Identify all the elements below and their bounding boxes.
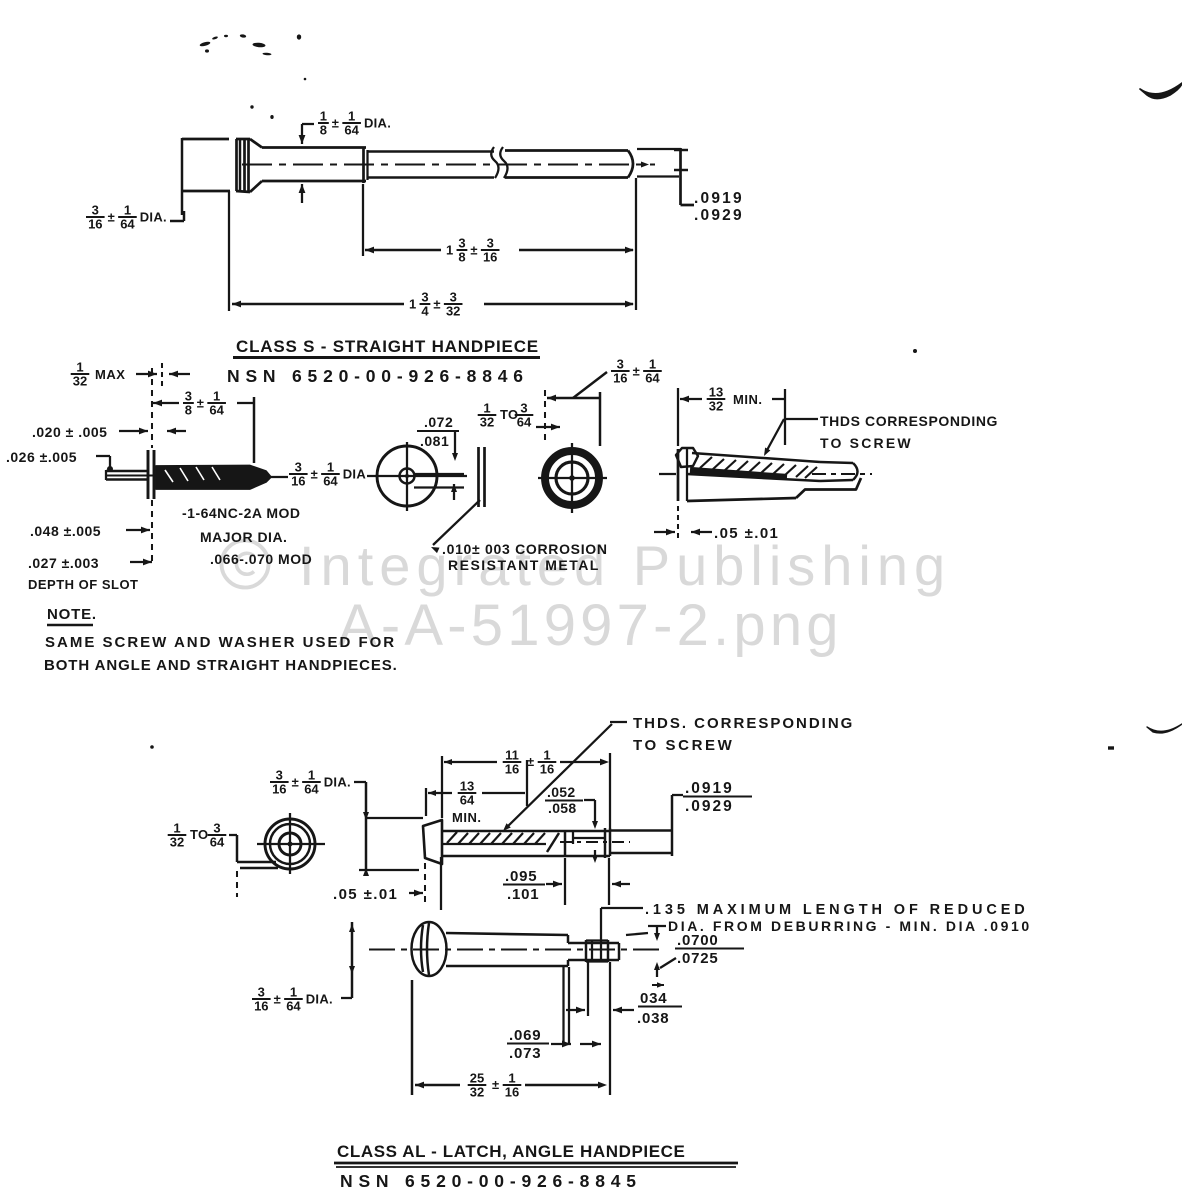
svg-text:16: 16	[505, 1085, 519, 1100]
svg-text:1: 1	[76, 360, 83, 375]
svg-text:.05 ±.01: .05 ±.01	[714, 525, 779, 542]
svg-text:64: 64	[210, 835, 225, 850]
svg-text:1: 1	[327, 460, 334, 475]
svg-text:.048 ±.005: .048 ±.005	[30, 523, 101, 539]
svg-text:1: 1	[213, 389, 220, 404]
socket screw threads (hatched)	[692, 453, 820, 462]
svg-text:64: 64	[517, 415, 532, 430]
svg-text:1: 1	[508, 1071, 515, 1086]
svg-text:3: 3	[450, 290, 457, 305]
dimension 13/64 MIN	[428, 790, 436, 796]
dimension 1 3/4 +- 3/32	[232, 301, 241, 308]
washer front view circle	[545, 451, 599, 505]
svg-text:3: 3	[258, 985, 265, 1000]
svg-text:±: ±	[197, 396, 204, 411]
svg-text:-1-64NC-2A MOD: -1-64NC-2A MOD	[182, 505, 301, 521]
svg-text:1: 1	[308, 768, 315, 783]
dimension 11/16 +- 1/16	[444, 759, 452, 765]
svg-text:64: 64	[645, 371, 660, 386]
AL screw front view circles	[265, 819, 315, 869]
svg-text:CLASS S - STRAIGHT HANDPIECE: CLASS S - STRAIGHT HANDPIECE	[236, 337, 539, 356]
svg-text:.052: .052	[547, 784, 575, 800]
dimension 3/8 +- 1/64 (thread length)	[153, 400, 162, 407]
AL lower screw extension lines below	[411, 980, 413, 1095]
leader from corrosion label to washer	[433, 500, 480, 545]
svg-text:MAJOR DIA.: MAJOR DIA.	[200, 529, 287, 545]
svg-text:DIA.: DIA.	[306, 992, 333, 1007]
shank 1/8 dia section	[262, 146, 366, 149]
head cone taper	[250, 139, 262, 148]
svg-text:8: 8	[185, 403, 192, 418]
svg-text:.0700: .0700	[677, 932, 719, 949]
AL upper screw side view - chisel tip	[423, 820, 442, 864]
ink speckles above top view	[199, 41, 211, 47]
slot lines on head front view	[414, 473, 464, 475]
svg-text:CLASS AL - LATCH, ANGLE HANDPI: CLASS AL - LATCH, ANGLE HANDPIECE	[337, 1142, 685, 1161]
socket sleeve outline	[677, 449, 680, 501]
svg-text:.081: .081	[420, 433, 449, 449]
svg-text:.0725: .0725	[677, 950, 719, 967]
svg-text:16: 16	[613, 371, 627, 386]
svg-text:32: 32	[73, 374, 87, 389]
svg-text:1: 1	[320, 109, 327, 124]
label .034/.038 with arrows	[652, 984, 664, 986]
svg-text:.026 ±.005: .026 ±.005	[6, 449, 77, 465]
svg-text:A-A-51997-2.png: A-A-51997-2.png	[338, 593, 843, 658]
svg-text:3: 3	[185, 389, 192, 404]
svg-text:3: 3	[520, 401, 527, 416]
svg-text:MIN.: MIN.	[733, 392, 762, 407]
break symbol in shaft	[491, 147, 498, 178]
watermark line 1	[222, 541, 269, 588]
thin shaft right part with end cap	[505, 149, 628, 152]
svg-text:.095: .095	[505, 868, 537, 885]
label 1/8 +- 1/64 DIA with arrows	[301, 124, 303, 144]
svg-text:.072: .072	[424, 414, 453, 430]
svg-text:±: ±	[492, 1077, 500, 1092]
svg-text:1: 1	[446, 243, 454, 258]
svg-text:DIA. FROM DEBURRING - MIN. DIA: DIA. FROM DEBURRING - MIN. DIA .0910	[668, 918, 1032, 934]
arrows .0700/.0725	[656, 926, 658, 937]
AL lower screw side view - oval head	[412, 922, 447, 976]
slot depth line	[106, 474, 182, 476]
svg-text:DEPTH OF SLOT: DEPTH OF SLOT	[28, 577, 139, 592]
screw head front view circle	[377, 446, 437, 506]
svg-text:32: 32	[480, 415, 494, 430]
svg-text:.101: .101	[507, 886, 539, 903]
svg-text:MIN.: MIN.	[452, 810, 481, 825]
AL upper screw thin shaft	[610, 829, 672, 831]
AL upper screw center line	[560, 841, 630, 843]
leader and dimension lines for AL head dia	[354, 781, 366, 783]
center line of screw	[242, 163, 655, 165]
dimension 1 3/8 +- 3/16	[365, 247, 374, 254]
svg-text:64: 64	[344, 123, 359, 138]
svg-text:.020 ± .005: .020 ± .005	[32, 424, 107, 440]
leader for .135 note	[601, 907, 643, 909]
svg-text:64: 64	[209, 403, 224, 418]
svg-text:3: 3	[421, 290, 428, 305]
svg-text:±: ±	[633, 364, 640, 379]
svg-text:.027 ±.003: .027 ±.003	[28, 555, 99, 571]
svg-text:16: 16	[272, 782, 286, 797]
dimension 25/32 +- 1/16	[415, 1082, 424, 1089]
scan mark crescent top right	[1140, 83, 1182, 99]
svg-text:64: 64	[323, 474, 338, 489]
vertical extension line through flange (dashed)	[151, 368, 153, 448]
svg-text:±: ±	[274, 992, 281, 1007]
svg-text:13: 13	[709, 385, 723, 400]
svg-text:DIA: DIA	[343, 467, 367, 482]
svg-text:3: 3	[458, 236, 465, 251]
svg-text:SAME SCREW AND WASHER USED FOR: SAME SCREW AND WASHER USED FOR	[45, 634, 396, 651]
svg-text:1: 1	[124, 203, 131, 218]
svg-text:.05 ±.01: .05 ±.01	[333, 886, 398, 903]
step to thin shaft	[362, 148, 365, 183]
svg-text:3: 3	[213, 821, 220, 836]
svg-text:1: 1	[290, 985, 297, 1000]
svg-text:16: 16	[254, 999, 268, 1014]
svg-text:32: 32	[170, 835, 184, 850]
svg-text:.038: .038	[637, 1010, 669, 1027]
AL upper screw latch groove	[564, 831, 566, 856]
extension line below head	[228, 191, 230, 311]
dimension 3/16 +- 1/64 (washer OD)	[544, 390, 546, 441]
leader .0919/.0929 diameter	[679, 148, 682, 205]
svg-text:DIA.: DIA.	[324, 775, 351, 790]
svg-text:.0919: .0919	[694, 190, 744, 207]
extension line below right end	[635, 178, 637, 310]
svg-text:64: 64	[304, 782, 319, 797]
svg-text:±: ±	[433, 297, 440, 312]
AL lower screw thin end	[567, 935, 569, 943]
extension lines at right end	[637, 148, 681, 150]
svg-text:±: ±	[470, 243, 477, 258]
extension line below shaft step	[362, 184, 364, 256]
svg-text:±: ±	[332, 116, 339, 131]
svg-text:64: 64	[120, 217, 135, 232]
scan dot right of washer view	[913, 349, 917, 353]
svg-text:1: 1	[348, 109, 355, 124]
svg-text:.0919: .0919	[685, 780, 734, 797]
svg-text:13: 13	[460, 779, 474, 794]
AL lower screw center line	[369, 948, 660, 950]
svg-text:THDS CORRESPONDING: THDS CORRESPONDING	[820, 413, 998, 429]
svg-text:1: 1	[543, 748, 550, 763]
svg-text:11: 11	[505, 748, 519, 763]
washer side view (thin plate)	[477, 447, 480, 507]
svg-text:16: 16	[291, 474, 305, 489]
svg-text:32: 32	[709, 399, 723, 414]
dimension 13/32 MIN (socket depth)	[677, 388, 679, 446]
svg-text:±: ±	[311, 467, 318, 482]
svg-text:16: 16	[483, 250, 497, 265]
svg-text:8: 8	[320, 123, 327, 138]
svg-text:25: 25	[470, 1071, 484, 1086]
svg-text:3: 3	[276, 768, 283, 783]
AL lower screw body	[446, 933, 568, 935]
scan mark crescent right middle	[1147, 724, 1182, 733]
svg-text:TO: TO	[190, 827, 208, 842]
AL extension lines below upper screw	[424, 863, 426, 903]
screw tip side view - pilot rod	[106, 470, 148, 472]
svg-text:±: ±	[292, 775, 299, 790]
svg-text:DIA.: DIA.	[140, 210, 167, 225]
dimension bracket 3/16 dia (head height)	[181, 138, 183, 215]
screw head side view	[236, 138, 250, 141]
svg-text:.0929: .0929	[694, 207, 744, 224]
svg-text:8: 8	[458, 250, 465, 265]
thin shaft left part	[368, 150, 494, 152]
leader for AL washer thickness	[229, 834, 237, 836]
svg-text:32: 32	[446, 304, 460, 319]
svg-text:16: 16	[505, 762, 519, 777]
flange washer on tip	[147, 450, 150, 499]
AL lower screw latch notch	[585, 940, 587, 962]
scan dot lower left	[150, 745, 154, 749]
svg-text:TO SCREW: TO SCREW	[633, 737, 734, 754]
AL upper screw body	[442, 830, 610, 833]
dimension .05 +-.01 (flange)	[654, 531, 675, 533]
svg-text:DIA.: DIA.	[364, 116, 391, 131]
svg-text:±: ±	[527, 754, 535, 769]
svg-text:4: 4	[421, 304, 429, 319]
svg-text:NSN 6520-00-926-8846: NSN 6520-00-926-8846	[227, 366, 529, 386]
svg-text:1: 1	[649, 357, 656, 372]
svg-text:1: 1	[483, 401, 490, 416]
svg-text:1: 1	[409, 297, 417, 312]
leader .0919/.0929 (AL)	[671, 795, 673, 856]
svg-text:034: 034	[640, 990, 667, 1007]
svg-text:.058: .058	[548, 800, 576, 816]
svg-text:.0929: .0929	[685, 798, 734, 815]
svg-text:RESISTANT METAL: RESISTANT METAL	[448, 557, 600, 573]
threaded portion (solid)	[156, 466, 271, 490]
svg-text:NOTE.: NOTE.	[47, 606, 97, 623]
socket screw plain rod and cap	[820, 462, 853, 463]
svg-text:.135 MAXIMUM LENGTH OF REDUCED: .135 MAXIMUM LENGTH OF REDUCED	[645, 902, 1029, 918]
svg-text:64: 64	[460, 793, 475, 808]
svg-text:16: 16	[88, 217, 102, 232]
svg-text:TO SCREW: TO SCREW	[820, 435, 913, 451]
svg-text:Integrated Publishing: Integrated Publishing	[299, 534, 951, 597]
svg-text:.066-.070 MOD: .066-.070 MOD	[210, 551, 312, 567]
svg-text:16: 16	[540, 762, 554, 777]
svg-text:32: 32	[470, 1085, 484, 1100]
svg-text:3: 3	[295, 460, 302, 475]
svg-text:3: 3	[487, 236, 494, 251]
svg-text:3: 3	[617, 357, 624, 372]
svg-text:1: 1	[173, 821, 180, 836]
AL upper screw threads	[447, 832, 545, 844]
socket screw side view - tip	[676, 448, 698, 467]
svg-text:BOTH ANGLE AND STRAIGHT HANDPI: BOTH ANGLE AND STRAIGHT HANDPIECES.	[44, 657, 398, 674]
scan mark dash	[1108, 746, 1114, 749]
svg-text:3: 3	[92, 203, 99, 218]
svg-text:64: 64	[286, 999, 301, 1014]
svg-text:THDS. CORRESPONDING: THDS. CORRESPONDING	[633, 715, 854, 732]
svg-text:NSN 6520-00-926-8845: NSN 6520-00-926-8845	[340, 1171, 642, 1191]
svg-text:MAX: MAX	[95, 367, 125, 382]
AL upper side view extension lines above	[425, 788, 427, 816]
svg-text:.073: .073	[509, 1045, 541, 1062]
svg-text:.010± 003 CORROSION: .010± 003 CORROSION	[442, 541, 608, 557]
svg-text:.069: .069	[509, 1027, 541, 1044]
svg-text:±: ±	[108, 210, 115, 225]
